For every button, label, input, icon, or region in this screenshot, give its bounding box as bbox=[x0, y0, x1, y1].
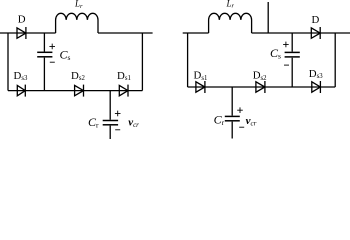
wire: left circuit left vertical bbox=[7, 33, 9, 91]
svg-text:Ds3: Ds3 bbox=[309, 68, 323, 80]
wire: left circuit top rail right segment bbox=[98, 32, 153, 34]
diode D_s3 (left circuit) bbox=[17, 85, 25, 97]
wire: left circuit right vertical bbox=[141, 33, 143, 91]
capacitor C_s (right circuit) bbox=[285, 52, 300, 57]
svg-text:Cr: Cr bbox=[214, 112, 225, 127]
svg-text:Ds3: Ds3 bbox=[14, 70, 28, 82]
diode D_s2 (right circuit) bbox=[256, 81, 265, 93]
wire: up stub (right circuit) bbox=[267, 2, 269, 33]
svg-text:D: D bbox=[18, 14, 26, 26]
svg-text:Ds1: Ds1 bbox=[194, 70, 208, 82]
diode D_s2 (left circuit) bbox=[75, 85, 84, 97]
wire: right circuit bottom rail bbox=[188, 86, 336, 88]
label + of C_r (right) bbox=[237, 107, 243, 113]
wire: C_r branch (right circuit) bbox=[231, 87, 233, 139]
label - of C_s (right) bbox=[284, 64, 289, 66]
wire: left circuit bottom rail bbox=[8, 90, 142, 92]
capacitor C_r (left circuit) bbox=[103, 121, 118, 125]
wire: C_r branch (left circuit) bbox=[109, 91, 111, 139]
diode D_s3 (right circuit) bbox=[312, 81, 321, 93]
label + of C_r (left) bbox=[115, 111, 121, 117]
svg-text:Cr: Cr bbox=[88, 115, 99, 129]
capacitor C_r (right circuit) bbox=[225, 116, 240, 120]
capacitor C_s (left circuit) bbox=[37, 52, 52, 57]
svg-text:D: D bbox=[312, 14, 320, 26]
svg-text:Lr: Lr bbox=[74, 0, 83, 10]
svg-text:vcr: vcr bbox=[246, 115, 257, 128]
label + of C_s (left) bbox=[49, 44, 55, 50]
wire: C_s branch (left circuit) bbox=[43, 33, 45, 91]
wire: right circuit top rail left segment bbox=[183, 32, 209, 34]
svg-text:Cs: Cs bbox=[270, 46, 281, 61]
diode D_s1 (left circuit) bbox=[119, 85, 128, 97]
label - of C_r (left) bbox=[115, 129, 120, 131]
wire: left circuit top rail left segment bbox=[0, 32, 56, 34]
svg-text:Lr: Lr bbox=[226, 0, 235, 10]
wire: right circuit left vertical bbox=[187, 33, 189, 87]
svg-text:Ds1: Ds1 bbox=[117, 70, 131, 82]
wire: right circuit right vertical bbox=[334, 33, 336, 87]
diode D (right circuit) bbox=[311, 27, 320, 39]
diode D_s1 (right circuit) bbox=[196, 81, 205, 93]
inductor L_r (right circuit) bbox=[209, 13, 252, 33]
svg-text:Ds2: Ds2 bbox=[253, 70, 267, 82]
diode D (left circuit) bbox=[17, 27, 26, 39]
svg-text:Ds2: Ds2 bbox=[71, 70, 85, 82]
svg-text:vcr: vcr bbox=[128, 116, 139, 129]
wire: right circuit top rail right segment bbox=[252, 32, 350, 34]
inductor L_r (left circuit) bbox=[56, 13, 98, 33]
label - of C_s (left) bbox=[50, 61, 55, 63]
label + of C_s (right) bbox=[283, 42, 289, 48]
wire: C_s branch (right circuit) bbox=[291, 33, 293, 87]
svg-text:Cs: Cs bbox=[60, 48, 71, 63]
label - of C_r (right) bbox=[239, 126, 244, 128]
